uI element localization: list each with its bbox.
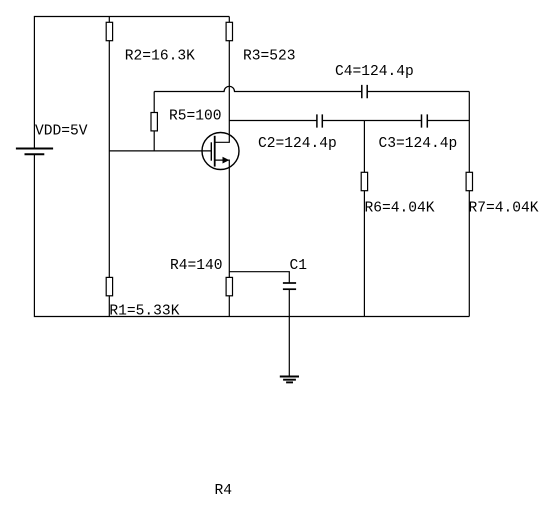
svg-text:C1: C1 [290,258,308,274]
svg-text:R2=16.3K: R2=16.3K [125,49,195,65]
svg-text:R4: R4 [215,483,233,499]
svg-text:C3=124.4p: C3=124.4p [379,136,458,152]
svg-text:C4=124.4p: C4=124.4p [335,64,414,80]
svg-text:R3=523: R3=523 [243,49,296,65]
svg-text:R5=100: R5=100 [169,109,222,125]
svg-text:C2=124.4p: C2=124.4p [258,136,337,152]
svg-text:R4=140: R4=140 [170,258,223,274]
svg-text:R6=4.04K: R6=4.04K [365,201,435,217]
svg-text:R7=4.04K: R7=4.04K [469,201,539,217]
svg-text:R1=5.33K: R1=5.33K [109,304,179,320]
svg-text:VDD=5V: VDD=5V [35,124,88,140]
